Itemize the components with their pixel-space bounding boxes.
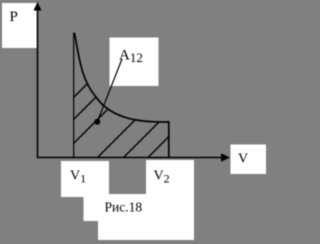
label box V [231, 145, 267, 175]
label box A12 [110, 38, 159, 87]
dot marker [94, 119, 100, 125]
svg-text:V1: V1 [70, 169, 86, 186]
svg-text:V: V [238, 152, 248, 167]
leader line from A12 to dot [97, 59, 122, 122]
P axis [37, 9, 39, 158]
P axis arrowhead [34, 2, 42, 11]
caption box Рис.18 [84, 194, 195, 221]
area right boundary line (V2 vertical) [168, 121, 170, 158]
hatch lines [13, 28, 277, 158]
isotherm curve [75, 33, 170, 122]
V axis arrowhead [221, 153, 230, 162]
label box V2 [146, 160, 194, 240]
label box V1 [61, 161, 109, 197]
svg-text:A12: A12 [119, 48, 143, 66]
area left boundary line (V1 vertical) [73, 33, 75, 159]
svg-text:V2: V2 [154, 169, 170, 186]
caption filler box [98, 200, 194, 240]
V axis [37, 157, 222, 159]
label box P [2, 3, 37, 48]
svg-text:Рис.18: Рис.18 [105, 200, 143, 215]
svg-text:P: P [10, 9, 18, 25]
